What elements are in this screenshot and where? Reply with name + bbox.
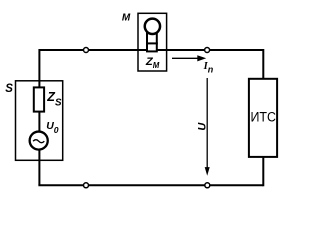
svg-text:M: M — [122, 12, 131, 23]
node top-left — [84, 48, 89, 53]
source enclosure box S — [16, 81, 63, 161]
load box ИТС — [249, 79, 277, 157]
svg-text:U: U — [197, 122, 209, 131]
AC source U0 — [30, 132, 48, 150]
wire left — [38, 49, 40, 185]
wire right — [262, 49, 264, 186]
wire top — [39, 49, 263, 51]
node bottom-left — [84, 183, 89, 188]
svg-text:ИТС: ИТС — [250, 110, 276, 125]
node bottom-right — [205, 183, 210, 188]
node top-right — [205, 48, 210, 53]
wire bottom — [38, 184, 263, 186]
sine symbol — [33, 140, 44, 143]
microphone stem bar — [146, 42, 158, 44]
voltage arrow U — [205, 78, 210, 176]
impedance ZS — [34, 87, 44, 111]
microphone stem — [147, 33, 157, 51]
microphone capsule — [145, 19, 160, 34]
current arrow In — [172, 55, 206, 61]
svg-text:S: S — [5, 83, 13, 95]
microphone box M — [138, 13, 167, 71]
